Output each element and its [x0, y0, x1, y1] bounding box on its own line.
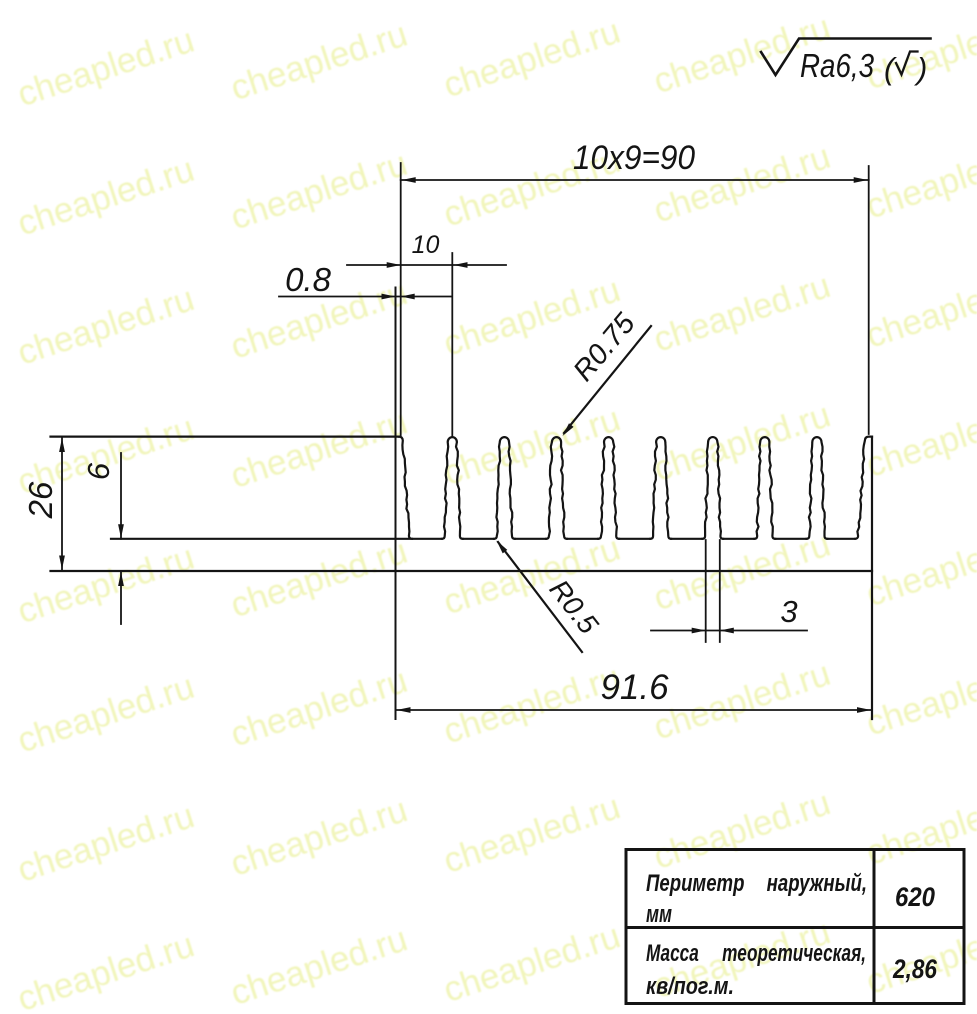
svg-text:Ra6,3: Ra6,3	[800, 47, 875, 84]
fin 1 (left wall) inner side	[399, 437, 412, 539]
fin 8	[754, 437, 775, 539]
profile right edge x=872 (also ext for 91.6)	[871, 437, 873, 719]
fin 3	[494, 437, 515, 539]
svg-text:R0.75: R0.75	[567, 307, 642, 388]
svg-text:R0.5: R0.5	[543, 574, 604, 640]
fin 5	[598, 437, 619, 539]
top surface line (extension of fin tops, y=436.6)	[51, 436, 400, 438]
fin 9	[807, 437, 828, 539]
dimension 91.6 : dimension line y=710	[396, 709, 873, 711]
base top surface line segments	[111, 538, 855, 540]
svg-text:2,86: 2,86	[892, 954, 938, 984]
dimension 10x9=90 : extension line right x=868.7	[868, 166, 870, 434]
profile left edge x=395.5 (also ext line for 0.8 and 91.6)	[395, 288, 397, 720]
dimension 10x9=90 : extension line left x=400.7	[400, 163, 402, 437]
fin 4	[546, 437, 567, 539]
dimension 3 : dimension line y=630.5 with outside arrows	[651, 630, 807, 632]
leader R0.75 arrow to fin tip	[564, 326, 651, 433]
svg-text:0.8: 0.8	[285, 261, 332, 298]
svg-text:Масса теоретическая,: Масса теоретическая,	[646, 940, 866, 967]
dimension 10 : dimension line y=265 with outside arrows	[347, 264, 506, 266]
parameters table outer border	[626, 850, 964, 1004]
surface roughness symbol check mark	[761, 39, 931, 76]
dimension 10 : extension line x=452.3	[451, 253, 453, 437]
dimension 0.8 : dimension line y=296.5 with outside arrows	[279, 296, 452, 298]
svg-text:(: (	[884, 51, 897, 86]
dimension 3 : extension lines through base	[705, 540, 707, 642]
svg-text:6: 6	[81, 462, 116, 480]
roughness small check inside parens	[896, 52, 918, 75]
svg-text:10x9=90: 10x9=90	[573, 139, 695, 177]
fin 6	[650, 437, 671, 539]
leader R0.5 arrow to fin root	[498, 542, 582, 652]
svg-text:26: 26	[22, 481, 59, 519]
svg-text:3: 3	[780, 594, 797, 629]
dimension 6 : upper arrow segment	[120, 453, 122, 539]
svg-text:620: 620	[895, 882, 935, 912]
dimension 26 : vertical dimension line x=62	[61, 437, 63, 571]
fin 10 (right wall) inner side	[855, 437, 872, 539]
table vertical divider	[873, 850, 876, 1004]
fin 7	[702, 437, 723, 539]
svg-text:): )	[913, 51, 927, 86]
svg-text:кв/пог.м.: кв/пог.м.	[646, 973, 734, 1000]
svg-text:Периметр наружный,: Периметр наружный,	[646, 870, 867, 897]
svg-text:мм: мм	[646, 901, 672, 928]
svg-text:10: 10	[412, 231, 440, 259]
base bottom line y=571	[51, 570, 873, 572]
fin 2	[442, 437, 463, 539]
dimension 10x9=90 : dimension line y=180	[401, 179, 869, 181]
svg-text:91.6: 91.6	[600, 668, 669, 707]
dimension 6 : lower arrow segment	[120, 572, 122, 625]
table horizontal divider	[626, 926, 964, 929]
